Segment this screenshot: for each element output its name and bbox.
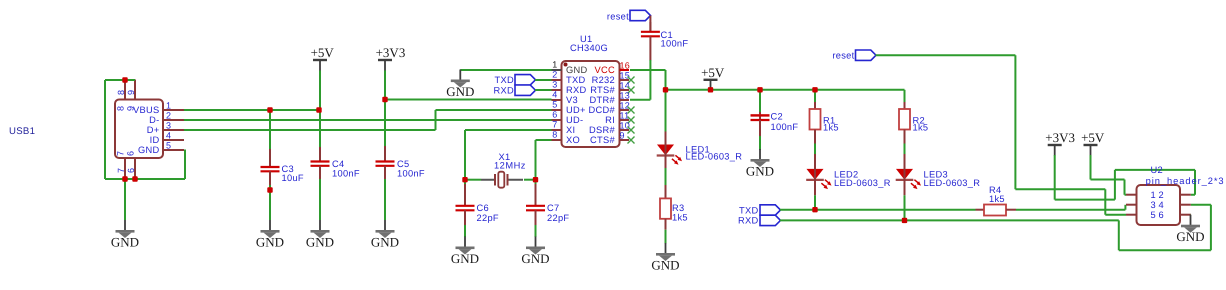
svg-text:reset: reset xyxy=(607,11,629,21)
svg-text:1k5: 1k5 xyxy=(989,194,1005,204)
svg-text:C6: C6 xyxy=(477,203,489,213)
svg-text:RXD: RXD xyxy=(738,216,759,226)
svg-text:100nF: 100nF xyxy=(661,38,689,48)
svg-text:RI: RI xyxy=(605,115,615,125)
svg-text:7: 7 xyxy=(116,168,126,173)
svg-text:3: 3 xyxy=(166,121,171,131)
svg-text:GND: GND xyxy=(371,235,399,250)
svg-text:GND: GND xyxy=(446,84,474,99)
svg-text:1k5: 1k5 xyxy=(823,123,839,133)
svg-text:GND: GND xyxy=(521,251,549,266)
svg-text:3: 3 xyxy=(1151,200,1156,210)
svg-text:5: 5 xyxy=(552,100,557,110)
svg-text:V3: V3 xyxy=(566,95,578,105)
svg-text:22pF: 22pF xyxy=(547,213,569,223)
svg-text:7: 7 xyxy=(116,151,126,156)
svg-text:1: 1 xyxy=(552,60,557,70)
svg-text:UD-: UD- xyxy=(566,115,583,125)
svg-text:4: 4 xyxy=(166,131,171,141)
svg-text:1k5: 1k5 xyxy=(913,123,929,133)
svg-text:GND: GND xyxy=(746,164,774,179)
svg-text:XI: XI xyxy=(566,125,575,135)
svg-text:GND: GND xyxy=(138,145,160,155)
svg-text:8: 8 xyxy=(116,90,126,95)
svg-text:TXD: TXD xyxy=(495,75,515,85)
svg-text:4: 4 xyxy=(1159,200,1164,210)
svg-text:100nF: 100nF xyxy=(332,168,360,178)
svg-text:DSR#: DSR# xyxy=(589,125,616,135)
svg-text:10: 10 xyxy=(620,120,631,130)
svg-text:TXD: TXD xyxy=(739,205,759,215)
svg-text:12MHz: 12MHz xyxy=(494,161,526,171)
svg-text:13: 13 xyxy=(620,90,631,100)
svg-text:+5V: +5V xyxy=(701,65,725,80)
svg-text:16: 16 xyxy=(620,60,631,70)
svg-text:7: 7 xyxy=(552,120,557,130)
svg-text:+5V: +5V xyxy=(311,45,335,60)
svg-text:VCC: VCC xyxy=(594,65,615,75)
svg-text:6: 6 xyxy=(1159,210,1164,220)
svg-text:22pF: 22pF xyxy=(477,213,499,223)
svg-text:8: 8 xyxy=(552,130,557,140)
svg-text:D+: D+ xyxy=(147,125,160,135)
svg-text:LED-0603_R: LED-0603_R xyxy=(924,178,981,188)
svg-text:2: 2 xyxy=(166,111,171,121)
svg-text:100nF: 100nF xyxy=(771,122,799,132)
svg-text:GND: GND xyxy=(451,251,479,266)
svg-text:15: 15 xyxy=(620,70,631,80)
svg-text:2: 2 xyxy=(552,70,557,80)
svg-text:1k5: 1k5 xyxy=(672,213,688,223)
svg-text:D-: D- xyxy=(149,115,159,125)
svg-text:RXD: RXD xyxy=(493,85,514,95)
svg-text:GND: GND xyxy=(306,235,334,250)
svg-text:R232: R232 xyxy=(592,75,615,85)
svg-text:9: 9 xyxy=(126,106,136,111)
svg-text:pin_header_2*3: pin_header_2*3 xyxy=(1146,176,1225,186)
svg-text:GND: GND xyxy=(651,258,679,273)
svg-text:5: 5 xyxy=(166,141,171,151)
svg-text:TXD: TXD xyxy=(566,75,586,85)
svg-text:UD+: UD+ xyxy=(566,105,586,115)
svg-text:VBUS: VBUS xyxy=(133,105,160,115)
svg-text:DCD#: DCD# xyxy=(588,105,615,115)
svg-text:1: 1 xyxy=(166,101,171,111)
svg-text:ID: ID xyxy=(150,135,160,145)
svg-text:10uF: 10uF xyxy=(282,173,304,183)
svg-text:DTR#: DTR# xyxy=(590,95,616,105)
svg-text:100nF: 100nF xyxy=(397,168,425,178)
svg-text:2: 2 xyxy=(1159,190,1164,200)
svg-text:11: 11 xyxy=(620,110,630,120)
svg-text:3: 3 xyxy=(552,80,557,90)
svg-text:GND: GND xyxy=(566,65,588,75)
svg-text:8: 8 xyxy=(116,106,126,111)
svg-text:U2: U2 xyxy=(1151,165,1163,175)
svg-text:1: 1 xyxy=(1151,190,1156,200)
svg-text:GND: GND xyxy=(111,235,139,250)
svg-text:C2: C2 xyxy=(771,112,783,122)
svg-text:+5V: +5V xyxy=(1081,130,1105,145)
svg-text:6: 6 xyxy=(552,110,557,120)
svg-text:14: 14 xyxy=(620,80,631,90)
svg-text:CTS#: CTS# xyxy=(590,135,615,145)
svg-text:12: 12 xyxy=(620,100,631,110)
svg-text:RTS#: RTS# xyxy=(590,85,615,95)
svg-text:LED-0603_R: LED-0603_R xyxy=(834,178,891,188)
svg-text:reset: reset xyxy=(832,51,854,61)
svg-text:9: 9 xyxy=(620,130,625,140)
svg-text:GND: GND xyxy=(1176,229,1204,244)
svg-text:9: 9 xyxy=(126,90,136,95)
svg-text:USB1: USB1 xyxy=(9,126,35,137)
svg-text:6: 6 xyxy=(126,168,136,173)
svg-text:4: 4 xyxy=(552,90,557,100)
svg-text:R3: R3 xyxy=(672,203,684,213)
svg-text:+3V3: +3V3 xyxy=(1045,130,1075,145)
svg-text:C7: C7 xyxy=(547,203,559,213)
svg-text:XO: XO xyxy=(566,135,580,145)
svg-text:RXD: RXD xyxy=(566,85,587,95)
svg-text:+3V3: +3V3 xyxy=(376,45,406,60)
svg-text:5: 5 xyxy=(1151,210,1156,220)
svg-text:6: 6 xyxy=(126,151,136,156)
svg-text:GND: GND xyxy=(256,235,284,250)
svg-text:CH340G: CH340G xyxy=(570,43,608,53)
svg-text:LED-0603_R: LED-0603_R xyxy=(686,152,743,162)
